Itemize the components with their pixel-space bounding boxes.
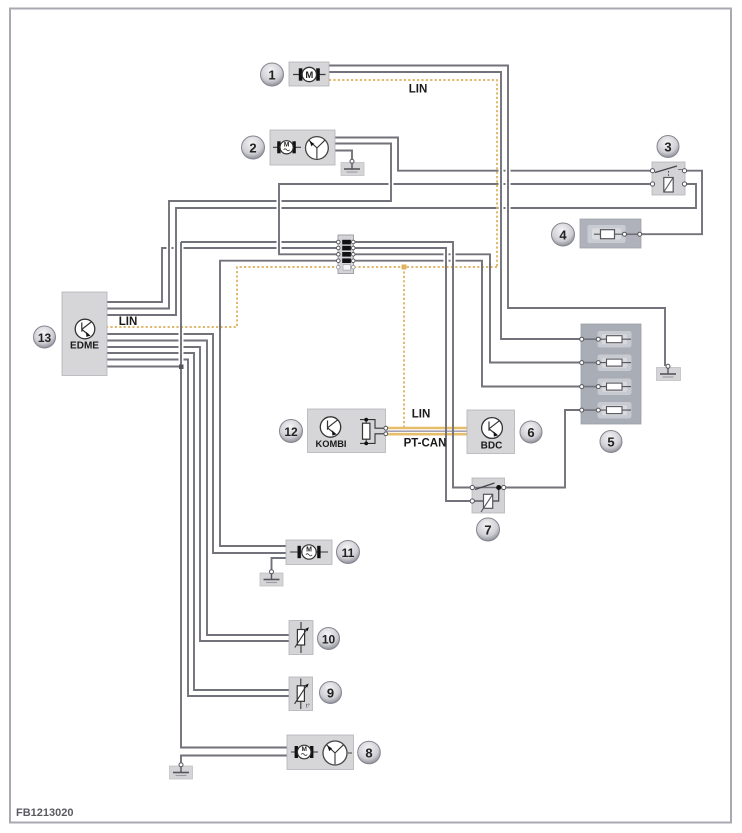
label circle 11 [337, 541, 360, 564]
svg-text:M: M [305, 70, 313, 81]
svg-text:8: 8 [365, 746, 372, 761]
node LIN junction dot [402, 265, 407, 270]
label circle 6 [520, 421, 542, 443]
svg-text:4: 4 [559, 228, 567, 243]
wire net H: connector row3 left to relay3 left-bottom [279, 184, 652, 254]
svg-text:LIN: LIN [412, 409, 431, 421]
wire net B: fan motor 1 pin2 to fuse row1 [329, 72, 582, 339]
wire net M: EDME p4 to pump 11 mid [107, 334, 286, 553]
svg-text:LIN: LIN [409, 84, 428, 96]
wire net A: fan motor 1 pin1 to right ground [329, 66, 665, 367]
svg-text:M: M [284, 142, 289, 149]
fuse box (item 5, four fuses) [580, 324, 641, 424]
wire net F2: connector row2 right to relay7 left-bottom [353, 248, 472, 501]
svg-text:M: M [301, 746, 306, 753]
wire net I2: connector row4 right to fuse row3 [353, 261, 582, 387]
label circle 4 [552, 223, 575, 246]
svg-text:KOMBI: KOMBI [316, 439, 347, 449]
wire net E: box2 pin3 to ground stub [335, 151, 352, 162]
wire LIN line KOMBI-BDC [386, 427, 467, 430]
control unit BDC (item 6) [467, 410, 515, 454]
svg-text:10: 10 [322, 633, 336, 647]
wire crossing gaps (vertical passes over horizontal) [166, 167, 510, 437]
ground below pump 8 [170, 763, 193, 779]
wire net N: EDME p5 to sensor10 top [107, 341, 289, 636]
relay K3 (item 3) [650, 162, 686, 195]
svg-text:7: 7 [484, 523, 491, 538]
label circle 2 [242, 136, 265, 159]
label circle 1 [261, 63, 284, 86]
label circle 13 [34, 326, 56, 348]
wire net R: pump11 ground lead [272, 558, 287, 571]
control unit KOMBI (item 12) [308, 409, 388, 453]
wire net C: box2 pin1 to relay3 left-top [335, 138, 652, 171]
ground below item 2 [341, 159, 364, 175]
pump unit U2 (item 2: coolant pump with fan) [270, 130, 335, 165]
connector X (4-pin inline connector) [337, 235, 356, 274]
temperature sensor B10 (item 10) [289, 621, 313, 655]
ground right of fuse box [657, 364, 681, 380]
wire net K: relay3 right-top to fuse4 [640, 171, 702, 235]
svg-text:LIN: LIN [119, 316, 138, 328]
wire net G4: connector row1 right to relay7 left-top [353, 242, 472, 488]
wire net P: EDME p7 to sensor9 top [107, 353, 289, 690]
label circle 12 [280, 420, 303, 443]
wire net I: connector row4 left down to pump 11 top [220, 261, 338, 546]
label circle 5 [600, 431, 622, 453]
ground below pump 11 [260, 570, 283, 586]
wire net G2: vertical bus x181 connector row1 down to comp8 [181, 242, 287, 748]
wire net F: EDME p1 riser to connector row2 left [107, 248, 338, 302]
svg-text:5: 5 [607, 435, 614, 450]
svg-text:1: 1 [268, 68, 275, 83]
svg-text:FB1213020: FB1213020 [16, 807, 74, 819]
wire net O: EDME p6 to sensor10 bottom [107, 347, 289, 641]
svg-text:11: 11 [342, 546, 355, 560]
fuse F4 (item 4) [580, 219, 642, 248]
label circle 3 [657, 136, 679, 158]
wire net D: box2 pin2 to EDME p2 [107, 144, 391, 309]
wire PT-CAN orange line [386, 433, 467, 436]
wire net J: EDME p3 to relay3 right-bottom [107, 184, 696, 315]
temperature sensor B9 (item 9) [289, 677, 313, 711]
wire LIN bus from motor1 down [329, 80, 497, 267]
wire net S: comp8 ground lead [181, 756, 287, 765]
svg-text:PT-CAN: PT-CAN [404, 438, 447, 450]
pump M11 (item 11) [286, 540, 332, 565]
svg-text:BDC: BDC [481, 441, 503, 452]
pump unit U8 (item 8: pump with fan) [287, 735, 354, 770]
svg-text:EDME: EDME [70, 341, 99, 352]
svg-text:3: 3 [664, 140, 671, 155]
label circle 7 [477, 518, 500, 541]
wire net T: relay7 right to fuse row4 [504, 410, 582, 488]
wire net Q: EDME p8 to sensor9 bottom [107, 360, 289, 697]
wire net G3: connector row1 left lead [181, 241, 338, 243]
label circle 8 [358, 741, 381, 764]
label circle 10 [318, 628, 340, 650]
wire PT-CAN gray line [386, 430, 467, 432]
motor M1 (electric fan motor, item 1) [289, 62, 329, 86]
control unit EDME (item 13) [62, 292, 107, 376]
svg-text:2: 2 [249, 141, 256, 156]
wire LIN bus horizontal to EDME [107, 267, 497, 327]
svg-text:13: 13 [38, 331, 52, 345]
svg-text:12: 12 [284, 425, 298, 439]
label circle 9 [320, 682, 342, 704]
svg-text:9: 9 [327, 686, 334, 701]
wire LIN bus branch down to KOMBI line [403, 267, 405, 427]
wire net H2: connector row3 right to fuse row2 [353, 254, 582, 362]
node EDME p9 junction dot [179, 365, 184, 370]
svg-text:6: 6 [527, 425, 534, 440]
svg-text:M: M [306, 546, 312, 553]
svg-text:t°: t° [306, 704, 310, 710]
relay K7 (item 7) [470, 478, 506, 513]
wire net G: EDME p9 stub to junction [107, 366, 181, 368]
